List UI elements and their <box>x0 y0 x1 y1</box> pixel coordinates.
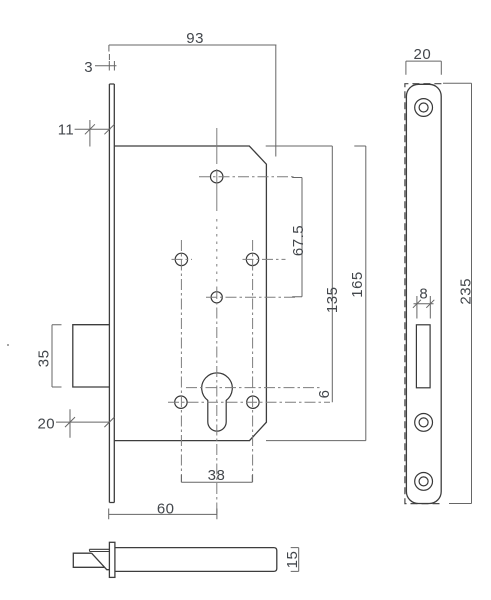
follower hole <box>211 171 223 183</box>
euro profile cylinder hole <box>202 373 233 431</box>
horizontal centerline cylinder <box>186 387 320 389</box>
upper right fixing hole <box>246 253 258 265</box>
dimension 165 <box>365 146 367 441</box>
dimension 8 (slot width) <box>413 296 434 319</box>
svg-text:165: 165 <box>349 271 366 298</box>
dimension 67.5 <box>292 178 302 297</box>
svg-text:6: 6 <box>316 390 333 399</box>
svg-text:93: 93 <box>186 30 204 47</box>
dimension 35 (latch height) <box>52 325 62 387</box>
svg-text:20: 20 <box>414 46 432 63</box>
middle hole <box>211 292 222 303</box>
dimension 135 <box>331 146 333 402</box>
upper left fixing hole <box>175 253 187 265</box>
svg-text:67.5: 67.5 <box>290 225 307 256</box>
strike faceplate front view: solid round-end outline <box>406 84 441 503</box>
svg-text:38: 38 <box>208 467 226 484</box>
lower left fixing hole <box>175 396 187 408</box>
vertical main centerline (lower) <box>216 288 218 514</box>
dimension 235 <box>443 83 472 503</box>
tiny stray dot left margin <box>7 344 9 346</box>
horizontal centerline follower <box>199 176 295 178</box>
dimension 11 <box>75 120 115 147</box>
extension line bottom (body bottom to 165 dim line) <box>266 440 366 442</box>
latch bolt side view: case bar <box>115 548 277 572</box>
svg-text:20: 20 <box>37 416 55 433</box>
dimension 60 <box>109 509 217 520</box>
vertical centerline right holes <box>252 240 254 482</box>
bottom screw hole <box>415 473 433 491</box>
lock case outline with chamfered right corners <box>114 146 266 441</box>
vertical main centerline (dotted mid segment) <box>216 219 218 288</box>
vertical centerline left holes <box>180 240 182 482</box>
svg-text:8: 8 <box>419 285 428 302</box>
latch bolt side view: faceplate cross-section <box>109 542 115 577</box>
dimension 3 (faceplate thickness) <box>95 61 117 71</box>
horizontal centerline upper holes <box>172 258 286 260</box>
dimension 93 <box>109 45 277 157</box>
strike faceplate front view: dashed square-end outline <box>405 84 442 504</box>
svg-text:3: 3 <box>84 59 93 76</box>
lower right fixing hole <box>247 396 259 408</box>
faceplate side view (vertical strip, main view) <box>109 84 114 503</box>
horizontal centerline middle hole <box>206 296 295 298</box>
svg-text:15: 15 <box>284 551 301 569</box>
dimension 20 (faceplate width) <box>406 61 441 75</box>
latch bolt side view: bevelled bolt head <box>73 553 109 570</box>
latch bolt front view (left protrusion) <box>73 325 110 387</box>
dimension 38 <box>181 475 252 482</box>
extension lines top (body top to 135/165 dim lines) <box>266 145 366 147</box>
latch bolt side view: guide strip <box>89 549 109 551</box>
dimension 20 (backset area, left) <box>56 409 114 438</box>
dimension 15 (bolt height) <box>291 548 299 572</box>
svg-text:60: 60 <box>157 501 175 518</box>
svg-text:11: 11 <box>58 121 75 138</box>
latch slot <box>416 325 430 388</box>
top screw hole <box>415 99 433 117</box>
middle screw hole <box>415 414 433 432</box>
svg-text:135: 135 <box>324 287 341 314</box>
svg-text:235: 235 <box>457 278 474 305</box>
svg-text:35: 35 <box>35 350 52 368</box>
vertical main centerline (upper) <box>216 128 218 212</box>
horizontal centerline lower holes <box>168 401 330 403</box>
